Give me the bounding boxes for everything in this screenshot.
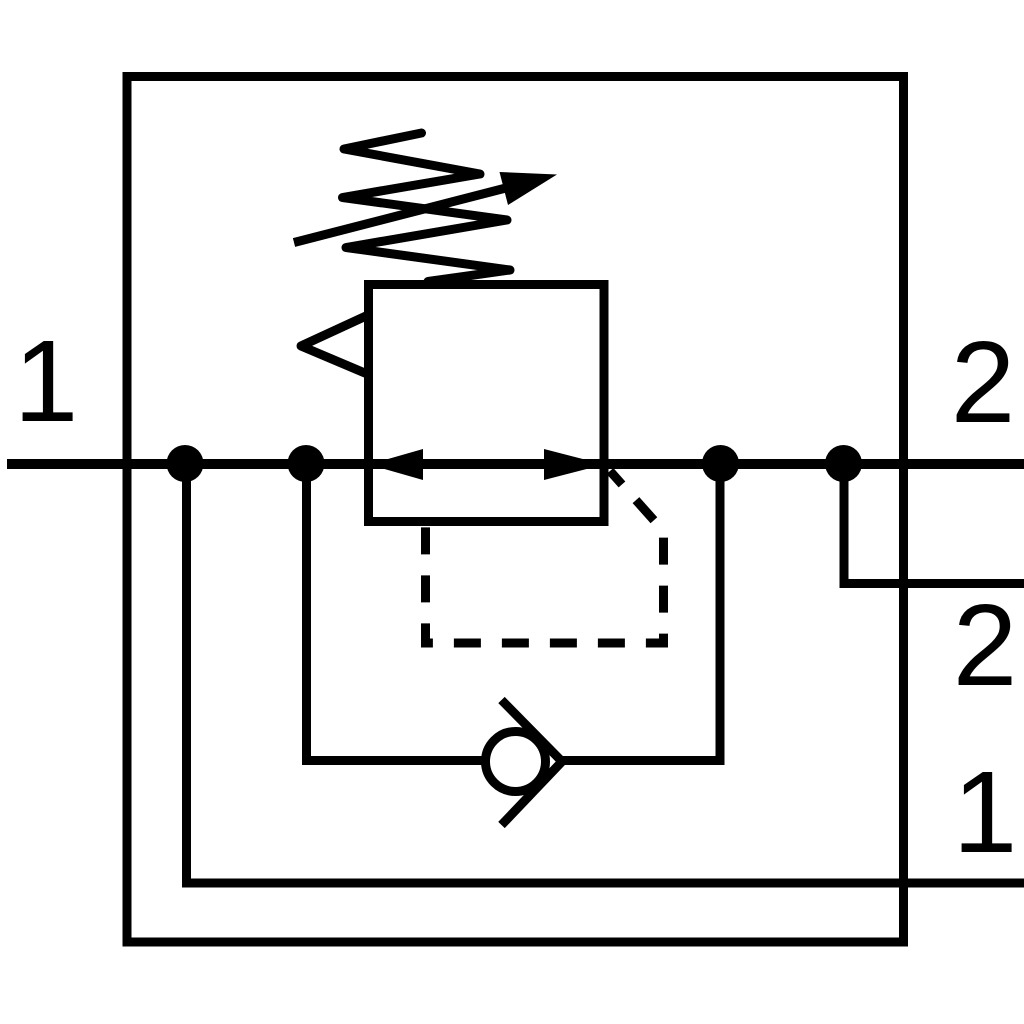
wire: check valve horizontal run left: [302, 756, 484, 765]
enclosure box (component boundary): [127, 77, 904, 943]
wire: branch up to dot C: [716, 463, 725, 765]
port label 1 (left): [14, 316, 79, 446]
wire: branch down from dot D: [840, 463, 849, 588]
flow arrow right (inside valve body): [544, 449, 604, 480]
port label 1 (right bottom): [953, 747, 1018, 877]
regulator valve body U1: [369, 285, 605, 522]
port label 2 (right middle): [953, 580, 1018, 710]
spring (adjustable, zigzag): [343, 133, 511, 282]
relief vent symbol (open triangle on valve left): [301, 316, 366, 374]
port line 1-2 main flow line: [7, 459, 1024, 469]
port label 2 (right top): [951, 317, 1016, 447]
wire: check valve horizontal run right: [560, 756, 720, 765]
junction dot B: [288, 445, 325, 482]
svg-text:1: 1: [14, 316, 79, 446]
flow arrow left (inside valve body): [369, 449, 423, 480]
junction dot A: [167, 445, 204, 482]
check valve V1 seat: [502, 700, 563, 825]
wire: left branch down from dot A: [182, 463, 191, 883]
svg-text:1: 1: [953, 747, 1018, 877]
check valve V1 ball: [486, 732, 546, 792]
svg-text:2: 2: [951, 317, 1016, 447]
wire: secondary port 2 run to right edge: [840, 579, 1024, 588]
wire: bottom run to right port 1: [182, 879, 1024, 888]
adjustment arrow through spring: [294, 172, 557, 243]
svg-text:2: 2: [953, 580, 1018, 710]
pilot line (dashed feedback): [426, 471, 664, 643]
junction dot C: [702, 445, 739, 482]
junction dot D: [825, 445, 862, 482]
wire: branch down from dot B to check valve: [302, 463, 311, 765]
